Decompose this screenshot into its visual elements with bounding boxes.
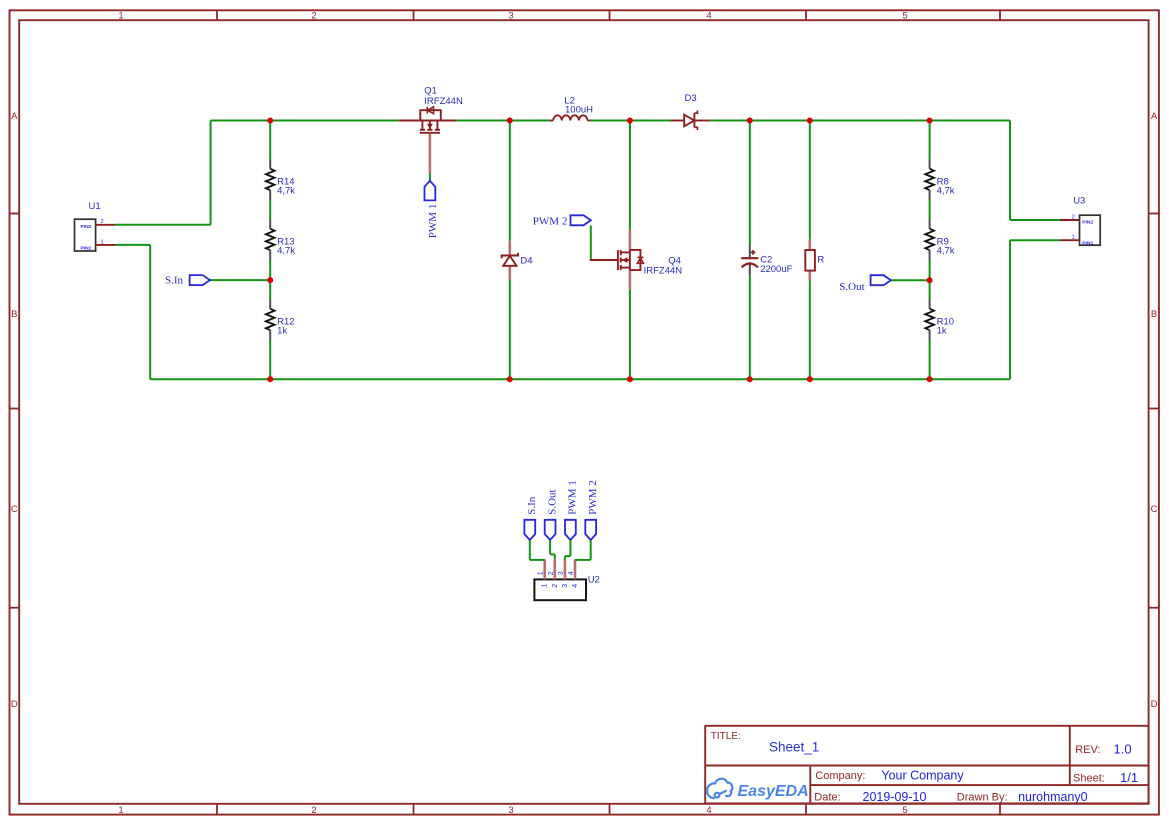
svg-text:4,7k: 4,7k bbox=[937, 245, 955, 256]
svg-text:1: 1 bbox=[536, 571, 545, 575]
svg-text:Company:: Company: bbox=[815, 770, 865, 782]
svg-text:Drawn By:: Drawn By: bbox=[957, 791, 1008, 803]
svg-text:IRFZ44N: IRFZ44N bbox=[424, 96, 463, 107]
svg-text:S.In: S.In bbox=[526, 496, 538, 515]
svg-text:B: B bbox=[1151, 309, 1157, 320]
svg-text:PIN1: PIN1 bbox=[81, 245, 92, 251]
svg-text:4,7k: 4,7k bbox=[277, 245, 295, 256]
svg-text:2: 2 bbox=[101, 219, 104, 225]
svg-text:PWM 1: PWM 1 bbox=[427, 204, 439, 239]
svg-text:1k: 1k bbox=[937, 325, 947, 336]
svg-text:2: 2 bbox=[1072, 215, 1075, 221]
svg-text:2019-09-10: 2019-09-10 bbox=[863, 790, 927, 804]
svg-text:EasyEDA: EasyEDA bbox=[738, 783, 809, 800]
svg-text:4: 4 bbox=[570, 584, 579, 588]
svg-text:TITLE:: TITLE: bbox=[711, 731, 741, 742]
svg-text:B: B bbox=[11, 309, 17, 320]
svg-text:4,7k: 4,7k bbox=[277, 185, 295, 196]
svg-text:PWM 1: PWM 1 bbox=[567, 480, 579, 515]
svg-text:2200uF: 2200uF bbox=[760, 264, 792, 275]
svg-text:4: 4 bbox=[566, 571, 575, 575]
svg-text:R: R bbox=[817, 255, 824, 266]
svg-text:PWM 2: PWM 2 bbox=[533, 215, 568, 227]
svg-text:5: 5 bbox=[902, 805, 907, 816]
svg-text:D3: D3 bbox=[685, 93, 697, 104]
svg-text:1/1: 1/1 bbox=[1120, 770, 1138, 785]
svg-text:1: 1 bbox=[118, 10, 123, 21]
svg-text:nurohmany0: nurohmany0 bbox=[1018, 790, 1088, 804]
svg-text:S.Out: S.Out bbox=[839, 281, 864, 293]
svg-text:Your Company: Your Company bbox=[881, 769, 964, 783]
svg-text:3: 3 bbox=[508, 10, 513, 21]
svg-text:A: A bbox=[11, 111, 18, 122]
svg-text:PIN1: PIN1 bbox=[1082, 240, 1093, 246]
svg-text:1: 1 bbox=[118, 805, 123, 816]
svg-text:2: 2 bbox=[550, 584, 559, 588]
svg-text:D4: D4 bbox=[520, 256, 532, 267]
svg-text:REV:: REV: bbox=[1075, 744, 1100, 756]
svg-text:PIN2: PIN2 bbox=[81, 224, 92, 230]
svg-text:2: 2 bbox=[311, 805, 316, 816]
svg-text:S.Out: S.Out bbox=[546, 489, 558, 514]
svg-text:Sheet:: Sheet: bbox=[1073, 773, 1105, 785]
svg-text:A: A bbox=[1151, 111, 1158, 122]
svg-text:1.0: 1.0 bbox=[1114, 741, 1132, 756]
svg-text:U3: U3 bbox=[1073, 196, 1085, 207]
svg-text:100uH: 100uH bbox=[565, 105, 593, 116]
svg-text:PIN2: PIN2 bbox=[1082, 219, 1093, 225]
svg-text:4,7k: 4,7k bbox=[937, 185, 955, 196]
svg-text:1: 1 bbox=[1072, 235, 1075, 241]
svg-text:1: 1 bbox=[540, 584, 549, 588]
svg-text:U1: U1 bbox=[89, 201, 101, 212]
svg-text:3: 3 bbox=[508, 805, 513, 816]
svg-text:2: 2 bbox=[311, 10, 316, 21]
svg-text:S.In: S.In bbox=[165, 275, 184, 287]
svg-text:IRFZ44N: IRFZ44N bbox=[644, 265, 683, 276]
svg-text:C: C bbox=[11, 504, 18, 515]
svg-text:4: 4 bbox=[706, 10, 711, 21]
svg-text:C: C bbox=[1151, 504, 1158, 515]
svg-text:U2: U2 bbox=[588, 574, 600, 585]
svg-text:1: 1 bbox=[101, 239, 104, 245]
svg-text:Sheet_1: Sheet_1 bbox=[769, 740, 819, 755]
svg-text:D: D bbox=[11, 699, 18, 710]
svg-text:1k: 1k bbox=[277, 325, 287, 336]
svg-text:D: D bbox=[1151, 699, 1158, 710]
svg-text:5: 5 bbox=[902, 10, 907, 21]
svg-text:4: 4 bbox=[706, 805, 711, 816]
svg-text:2: 2 bbox=[546, 571, 555, 575]
svg-text:3: 3 bbox=[556, 571, 565, 575]
svg-text:3: 3 bbox=[560, 584, 569, 588]
svg-text:Date:: Date: bbox=[814, 791, 840, 803]
svg-text:PWM 2: PWM 2 bbox=[587, 480, 599, 515]
